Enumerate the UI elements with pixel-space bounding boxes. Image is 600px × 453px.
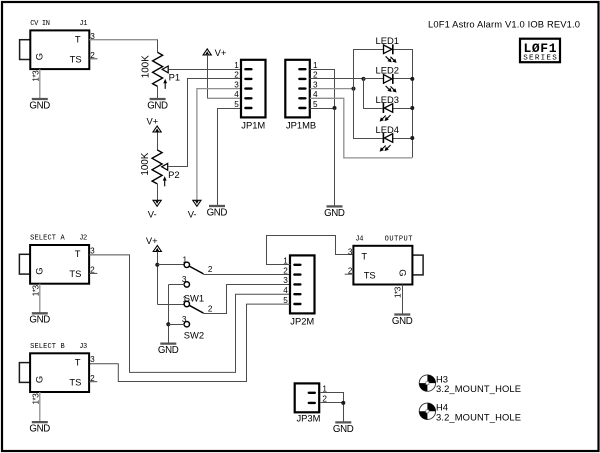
wire JP3M pin 1 to ground [321, 393, 344, 422]
svg-text:GND: GND [29, 315, 50, 326]
wire LED4 anode to rail [393, 138, 413, 140]
svg-text:5: 5 [234, 100, 239, 109]
svg-text:V+: V+ [146, 235, 158, 246]
svg-text:3: 3 [182, 275, 187, 284]
svg-text:1: 1 [234, 61, 239, 70]
svg-text:JP2M: JP2M [290, 316, 314, 327]
svg-text:2: 2 [208, 304, 213, 313]
wire JP1MB pin 5 [310, 108, 335, 110]
mount hole H4 [419, 402, 521, 423]
svg-text:1*3: 1*3 [393, 286, 402, 298]
junction V+ SW1 [155, 263, 159, 267]
svg-text:100K: 100K [140, 152, 151, 175]
header JP1M [234, 60, 265, 131]
junction pin2 LED2 [362, 77, 366, 81]
svg-text:G: G [33, 268, 44, 275]
ground for J4 [392, 315, 413, 327]
logo L0F1 SERIES [520, 39, 560, 63]
svg-text:GND: GND [207, 207, 228, 218]
svg-text:JP1M: JP1M [241, 120, 265, 131]
V+ supply above P2 [147, 116, 162, 132]
svg-text:TS: TS [69, 268, 81, 279]
V+ supply above JP1M [203, 47, 227, 58]
svg-text:JP1MB: JP1MB [286, 120, 316, 131]
wire P1 wiper to JP1M pin 1 [169, 69, 242, 71]
switch SW2 [182, 295, 213, 341]
svg-text:G: G [33, 376, 44, 383]
ground for JP3M [333, 422, 354, 434]
svg-text:TS: TS [364, 269, 376, 280]
svg-text:1*3: 1*3 [31, 284, 40, 296]
wire JP1M pin 3 to V- [197, 89, 241, 201]
ground for JP1M pin 5 [207, 206, 228, 218]
wire JP1MB pin 4 to right LED rail bottom [310, 98, 413, 158]
wire V+ down to SW2 [157, 252, 159, 305]
wire SW1 pin 3 [169, 284, 185, 286]
svg-text:4: 4 [234, 90, 239, 99]
svg-text:3: 3 [283, 276, 288, 285]
potentiometer P1 100K [140, 52, 180, 89]
header JP2M [283, 255, 314, 326]
wire JP1M pin 2 to P2 wiper [169, 79, 242, 167]
svg-text:LED4: LED4 [376, 124, 399, 135]
wire J2 pin3 T to JP2M pin 4 [89, 255, 290, 373]
junction SW1/SW2 pin 3 [166, 322, 170, 326]
V- supply below P2 [148, 200, 161, 219]
wire to JP1M pin 4 [207, 97, 241, 99]
svg-text:3: 3 [90, 247, 95, 256]
wire J2 pin 1*3 to ground [39, 284, 41, 313]
svg-text:4: 4 [283, 286, 288, 295]
svg-text:L0F1 Astro Alarm V1.0 IOB REV1: L0F1 Astro Alarm V1.0 IOB REV1.0 [428, 19, 580, 30]
jack J3 SELECT B [19, 343, 97, 405]
svg-text:G: G [34, 53, 45, 60]
svg-text:J4: J4 [355, 236, 363, 244]
ground for P1 [147, 99, 168, 111]
svg-text:V-: V- [148, 208, 157, 219]
wire P1 bottom to ground [157, 87, 159, 99]
wire J3 pin 1*3 to ground [39, 392, 41, 421]
svg-text:5: 5 [313, 100, 318, 109]
LED2 [376, 65, 399, 93]
wire V+ to SW2 pin 1 [158, 304, 185, 306]
svg-text:P2: P2 [168, 169, 179, 180]
wire V+ to P2 top [157, 133, 159, 150]
svg-text:CV IN: CV IN [30, 20, 50, 28]
svg-text:3: 3 [182, 315, 187, 324]
wire SW2 pin 2 to JP2M pin 3 [204, 285, 291, 314]
wire J1 pin 1*3 to ground [39, 69, 41, 98]
svg-text:J2: J2 [79, 235, 87, 243]
svg-text:3.2_MOUNT_HOLE: 3.2_MOUNT_HOLE [436, 383, 521, 394]
ground for switches [158, 344, 179, 356]
ground for J2 [29, 313, 50, 325]
svg-text:2: 2 [283, 266, 288, 275]
header JP3M [295, 383, 328, 423]
wire JP1M pin 5 to ground [218, 109, 242, 206]
svg-text:J1: J1 [79, 20, 87, 28]
svg-text:J3: J3 [79, 343, 87, 351]
svg-text:SELECT A: SELECT A [30, 235, 65, 243]
svg-text:1: 1 [313, 61, 318, 70]
wire junction down to LED3 cathode [364, 79, 383, 109]
svg-text:3.2_MOUNT_HOLE: 3.2_MOUNT_HOLE [436, 411, 521, 422]
junction JP3M pins 1-2 [341, 401, 345, 405]
switch SW1 [182, 256, 213, 304]
svg-text:V-: V- [188, 208, 197, 219]
wire J4 pin 1*3 to ground [402, 285, 404, 314]
wire to LED2 anode [364, 78, 384, 80]
ground for J1 [29, 99, 50, 111]
wire left LED rail LED1 anode to LED4 cathode [354, 50, 384, 139]
V- supply for JP1M pin 3 [188, 200, 201, 219]
svg-text:JP3M: JP3M [296, 413, 320, 424]
wire SW1 pin 3 down to ground [168, 285, 170, 343]
svg-text:T: T [361, 250, 367, 261]
svg-text:GND: GND [29, 100, 50, 111]
junction JP1MB pins 1-5 [333, 106, 337, 110]
wire SW1 pin 2 to JP2M pin 2 [204, 274, 291, 276]
svg-text:GND: GND [333, 424, 354, 435]
wire P2 bottom to V- [157, 184, 159, 201]
svg-text:V+: V+ [147, 116, 159, 127]
wire SW2 pin 3 to ground net [169, 324, 185, 326]
LED1 [376, 35, 399, 63]
svg-text:P1: P1 [169, 71, 180, 82]
svg-text:GND: GND [392, 316, 413, 327]
wire J1 pin3 T to P1 [89, 39, 157, 41]
wire JP1MB pin 3 to LED rail [310, 88, 354, 90]
mount hole H3 [419, 373, 521, 394]
svg-text:LED1: LED1 [376, 35, 399, 46]
junction LED2 right rail [410, 77, 414, 81]
jack J1 CV IN [20, 20, 98, 82]
jack J4 OUTPUT [345, 236, 423, 299]
svg-text:T: T [75, 34, 81, 45]
svg-text:3: 3 [90, 355, 95, 364]
svg-text:1*3: 1*3 [31, 393, 40, 405]
svg-text:SW2: SW2 [184, 329, 204, 340]
svg-text:G: G [398, 269, 409, 276]
wire V+ to SW1 pin 1 [158, 264, 185, 266]
wire right LED rail [393, 50, 413, 158]
svg-text:1: 1 [182, 256, 187, 265]
svg-text:LED3: LED3 [376, 94, 399, 105]
wire junction down to ground [334, 109, 336, 206]
svg-text:100K: 100K [140, 55, 151, 78]
wire V+ down to JP1M pin 4 row [207, 55, 209, 99]
potentiometer P2 100K [140, 150, 180, 187]
ground for JP1MB [324, 206, 345, 218]
LED3 [376, 94, 399, 122]
svg-text:TS: TS [70, 54, 82, 65]
svg-text:TS: TS [69, 377, 81, 388]
svg-text:V+: V+ [215, 47, 227, 58]
wire JP3M pin 2 [321, 402, 344, 404]
wire JP2M pin 5 to J3 pin 3 T [89, 304, 290, 381]
svg-text:GND: GND [29, 424, 50, 435]
svg-text:GND: GND [324, 208, 345, 219]
junction LED4 right rail [410, 136, 414, 140]
junction pin3 on left LED rail [352, 87, 356, 91]
svg-text:3: 3 [234, 80, 239, 89]
wire JP1MB pin 1 to ground net [310, 70, 335, 109]
LED4 [376, 124, 399, 152]
jack J2 SELECT A [19, 235, 97, 297]
svg-text:2: 2 [208, 265, 213, 274]
svg-text:GND: GND [158, 345, 179, 356]
svg-text:GND: GND [147, 100, 168, 111]
svg-text:LED2: LED2 [376, 65, 399, 76]
svg-text:SERIES: SERIES [523, 55, 557, 63]
ground for J3 [29, 422, 50, 434]
svg-text:OUTPUT: OUTPUT [385, 236, 413, 244]
junction LED3 right rail [410, 106, 414, 110]
svg-text:5: 5 [283, 296, 288, 305]
svg-text:2: 2 [234, 71, 239, 80]
wire LED3 anode to rail [393, 108, 413, 110]
svg-text:1: 1 [182, 295, 187, 304]
wire JP1MB pin 2 to LED2 anode [310, 78, 364, 80]
svg-text:SELECT B: SELECT B [30, 343, 65, 351]
wire into P1 top [157, 40, 159, 53]
wire JP2M pin 1 to J4 pin 3 T [267, 236, 354, 265]
svg-text:T: T [75, 357, 81, 368]
svg-text:3: 3 [348, 247, 353, 256]
V+ supply above switches [146, 235, 162, 251]
header JP1MB [285, 60, 318, 131]
wire LED2 cathode to rail [393, 78, 413, 80]
svg-text:T: T [75, 248, 81, 259]
